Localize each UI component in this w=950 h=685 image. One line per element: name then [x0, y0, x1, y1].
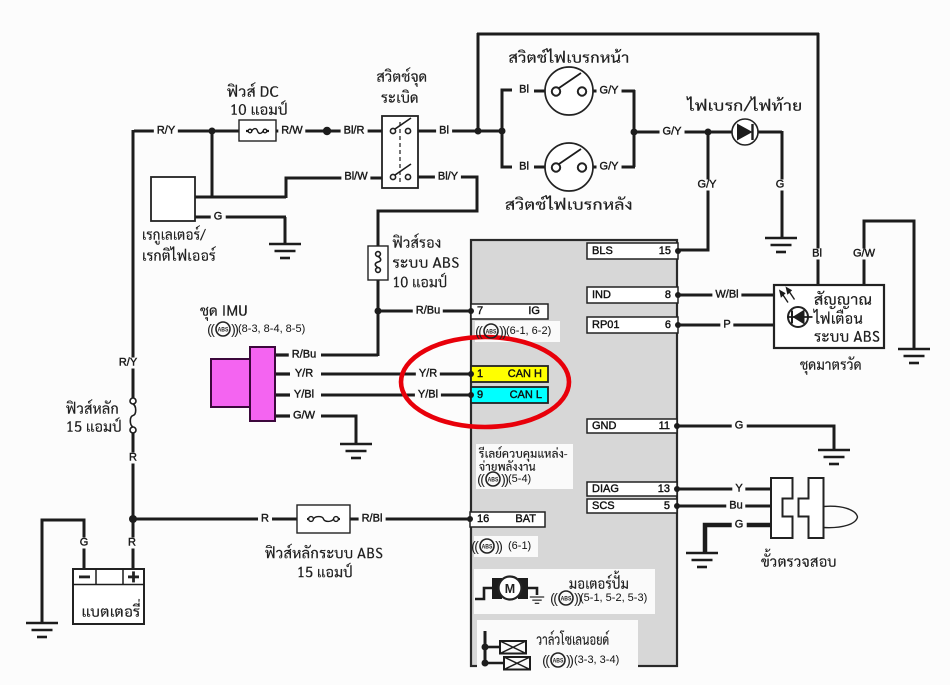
wire G/W from IMU to ground — [321, 416, 356, 444]
wire stub R/Bu from IMU — [275, 353, 290, 356]
pin 13 dot — [674, 486, 680, 492]
wire R/Bu to IG pin 7 — [378, 310, 471, 313]
label sub fuse line2 — [393, 257, 459, 268]
wire regulator ground drop — [284, 217, 287, 244]
label R/Bu pin7 — [413, 306, 443, 317]
label meter unit — [800, 356, 861, 375]
label G lamp ground — [773, 180, 788, 191]
junction BI at frame drop — [475, 128, 482, 135]
wire G from regulator — [195, 216, 286, 219]
ignition switch contact lower — [390, 174, 395, 179]
wire R from battery node to ABS main fuse — [133, 518, 298, 521]
pin label CAN H — [508, 369, 542, 380]
ABS control unit (ECU) panel — [471, 240, 677, 666]
battery box — [73, 569, 144, 624]
label G test — [732, 520, 747, 531]
pin 15 dot — [675, 248, 681, 254]
brake/tail lamp (diode symbol) — [732, 119, 758, 145]
svg-text:ABS: ABS — [561, 595, 572, 602]
pin number 11 — [659, 421, 670, 432]
svg-text:(: ( — [478, 323, 483, 339]
wire R to battery plus — [132, 519, 135, 570]
pin 11 dot — [674, 423, 680, 429]
label Bu SCS — [726, 501, 745, 512]
ABS logo (IMU) — [216, 322, 230, 336]
label power relay line1 — [479, 446, 568, 462]
wire from regulator to BI/W elbow — [195, 196, 286, 199]
ignition switch contact upper — [390, 128, 395, 133]
wire BI to front brake switch — [534, 90, 552, 93]
ground (GND pin 11) — [818, 450, 850, 464]
wire Y from DIAG pin 13 to test connector — [678, 488, 772, 491]
IMU unit connector (small) — [250, 347, 275, 421]
label R battery — [125, 538, 139, 549]
fuse DC 10A element — [246, 130, 250, 132]
label Bl front switch — [516, 85, 532, 96]
ground (test connector G) — [686, 553, 718, 567]
junction R/Bu node — [375, 308, 382, 315]
wire R/Y left vertical — [132, 130, 135, 401]
svg-text:(: ( — [553, 590, 558, 606]
ABS logo (BAT) — [480, 539, 494, 553]
pin 9 CAN L (highlighted) — [471, 387, 548, 403]
label G regulator — [211, 212, 226, 223]
solenoid valve 2 — [504, 657, 530, 670]
ground (brake/tail lamp) — [765, 238, 797, 252]
wire bracket to brake switch BI terminals — [502, 90, 512, 167]
junction solenoid valve 1 — [482, 644, 489, 651]
pin number 7 — [477, 306, 483, 317]
white label patch solenoid valve — [477, 620, 638, 670]
ABS warning light box (meter unit) — [774, 285, 884, 348]
ignition switch dashed link — [399, 122, 401, 182]
wire BI down to meter unit — [817, 33, 820, 287]
label R/Bl — [359, 514, 386, 525]
label G/Y front switch — [597, 86, 622, 97]
label main fuse line1 — [66, 399, 118, 414]
pin number 13 — [658, 484, 670, 495]
svg-text:ABS: ABS — [488, 476, 499, 483]
label rear brake light switch — [505, 195, 631, 210]
svg-text:(: ( — [480, 471, 485, 487]
test connector left shell — [771, 478, 793, 538]
label Y/Bl pin9 — [415, 390, 441, 401]
wire R/W / BI/R from DC fuse to ignition switch — [275, 130, 383, 133]
label solenoid valve — [537, 630, 610, 645]
wire top frame horizontal — [477, 33, 819, 36]
wire G lamp ground drop — [781, 131, 784, 238]
pin 1 CAN H (highlighted) — [471, 366, 548, 382]
svg-text:(: ( — [545, 652, 550, 668]
label ignition switch line2 — [381, 89, 417, 103]
label rectifier line2 — [143, 246, 216, 261]
ABS logo (solenoid) — [551, 653, 565, 667]
wire BI to rear brake switch — [534, 166, 552, 169]
ABS warning LED symbol — [788, 307, 808, 327]
label pump motor — [569, 571, 628, 589]
label ABS main fuse line1 — [265, 544, 382, 559]
label G battery — [77, 538, 92, 549]
red highlight ellipse around CAN H / CAN L — [401, 337, 569, 427]
label P — [720, 320, 733, 331]
wire R/Bu from IMU to sub fuse node — [321, 354, 378, 357]
label regulator line1 — [143, 225, 206, 245]
label 10 amp — [231, 100, 286, 115]
junction G/Y lamp node — [705, 129, 712, 136]
wire W/BI from IND pin 8 to meter — [679, 294, 775, 297]
pin label CAN L — [510, 390, 542, 401]
label Bl rear switch — [516, 162, 532, 173]
main fuse 15A element — [130, 398, 136, 404]
label sub fuse line3 — [394, 273, 446, 288]
ABS main fuse 15A box — [297, 505, 350, 533]
wire to valve 1 — [485, 646, 501, 649]
label G/Y lamp feed — [660, 127, 685, 138]
white label patch pump motor — [474, 569, 655, 614]
label Bl — [436, 126, 452, 137]
ref (6-1) — [508, 541, 531, 552]
wire vertical from top frame to BI node — [477, 33, 480, 131]
ground (regulator) — [269, 244, 301, 258]
pin 7 IG — [471, 304, 548, 319]
wire G/Y to right bracket bottom — [619, 166, 635, 169]
pin 7 dot — [468, 308, 474, 314]
ground (battery) — [26, 623, 58, 637]
wire G/Y down to BLS pin 15 — [679, 132, 708, 250]
label test connector — [761, 549, 835, 568]
pin number 9 — [477, 390, 483, 401]
junction R battery node — [129, 515, 137, 523]
label main fuse line2 — [67, 417, 120, 432]
wire Y/R from IMU to CAN H pin 1 — [321, 373, 471, 376]
pin number 16 — [477, 514, 489, 525]
label ABS main fuse line2 — [298, 563, 351, 578]
pin IND 8 — [587, 287, 678, 303]
junction G/Y right bracket — [631, 129, 638, 136]
label front brake light switch — [509, 48, 628, 63]
label Bl/W — [341, 172, 370, 183]
svg-text:ABS: ABS — [486, 328, 497, 335]
ground (pump motor) — [530, 597, 544, 603]
pin 9 dot — [468, 392, 474, 398]
fuse DC 10A box — [239, 120, 276, 141]
label R/Bu IMU — [289, 350, 319, 361]
wire R below main fuse — [132, 430, 135, 520]
wire right bracket vertical — [633, 90, 636, 167]
label Y DIAG — [732, 484, 745, 495]
wire G/Y from front brake switch — [586, 90, 600, 93]
pin 16 BAT — [470, 512, 545, 527]
svg-text:ABS: ABS — [482, 543, 493, 550]
label fuse DC — [227, 82, 278, 97]
label R/Y vertical — [116, 358, 140, 369]
label G GND — [732, 421, 747, 432]
pin number 1 — [477, 369, 483, 380]
solenoid valve 1 — [500, 641, 526, 654]
pin BLS 15 — [587, 243, 678, 259]
label Y/R pin1 — [416, 369, 440, 380]
wire G test connector to ground — [705, 525, 772, 553]
ref (6-1, 6-2) — [506, 326, 551, 337]
pin number 15 — [659, 246, 671, 257]
wire from R/Y node down to regulator wire — [211, 131, 214, 198]
splice dot R/W — [323, 127, 331, 135]
wire stub G/W from IMU — [275, 414, 290, 417]
junction R/Y node — [209, 128, 216, 135]
wire R/Y from frame to DC fuse — [134, 130, 240, 133]
junction solenoid valve 2 — [482, 660, 489, 667]
white label patch under BAT pin — [474, 536, 538, 557]
label W/Bl — [712, 290, 741, 301]
label Y/Bl IMU — [291, 390, 317, 401]
white label patch under IG pin — [475, 321, 560, 342]
pin 8 dot — [675, 292, 681, 298]
svg-text:): ) — [498, 538, 503, 554]
pin label BLS — [592, 246, 613, 257]
ABS logo (motor) — [559, 591, 573, 605]
label R/Y — [154, 126, 178, 137]
pump motor wires — [475, 588, 493, 599]
svg-text:(: ( — [210, 321, 215, 337]
label ignition switch line1 — [377, 67, 426, 87]
pin number 8 — [665, 290, 671, 301]
pin 1 dot — [468, 371, 474, 377]
sub fuse element — [376, 252, 381, 257]
svg-text:(: ( — [474, 538, 479, 554]
LED arrows — [780, 288, 795, 303]
ABS main fuse element — [307, 518, 311, 520]
pin GND 11 — [587, 419, 677, 433]
ground (meter G/W) — [898, 349, 930, 363]
label power relay line2 — [479, 460, 535, 471]
label warning line1 — [815, 291, 872, 310]
label G/W IMU — [290, 411, 318, 422]
pin DIAG 13 — [587, 482, 677, 496]
wire from lamp to ground drop — [756, 131, 782, 134]
ref (5-4) — [508, 474, 531, 485]
wire to valve 2 — [485, 662, 505, 665]
pin label IG — [528, 306, 540, 317]
wire BI/Y from ignition switch through sub fuse — [378, 177, 477, 356]
wire Bu from SCS pin 5 to test connector — [678, 505, 772, 508]
junction BI bracket — [499, 128, 506, 135]
wire G/W from meter unit to ground — [864, 221, 914, 349]
label warning line2 — [813, 309, 862, 324]
ABS logo (IG) — [484, 324, 498, 338]
label Bl/Y — [435, 172, 461, 183]
pin label GND — [592, 421, 616, 432]
pin label DIAG — [592, 484, 619, 495]
pin label SCS — [592, 501, 615, 512]
wire G battery minus to ground — [42, 520, 84, 623]
white label patch power relay — [476, 444, 573, 489]
label Bl/R — [341, 126, 368, 137]
wire solenoid valve feed — [484, 631, 487, 665]
svg-text:ABS: ABS — [218, 326, 229, 333]
pin label RP01 — [592, 320, 620, 331]
regulator/rectifier box — [151, 177, 195, 221]
label Y/R IMU — [292, 369, 316, 380]
ref (5-1, 5-2, 5-3) — [580, 593, 647, 604]
label Bl meter — [809, 249, 825, 260]
ignition switch box — [382, 116, 418, 188]
ref (3-3, 3-4) — [574, 655, 619, 666]
test connector loop — [824, 506, 858, 527]
wire G/Y from rear brake switch — [586, 166, 600, 169]
ABS logo (relay) — [486, 472, 500, 486]
label G/Y vertical — [695, 180, 720, 191]
label brake/tail lamp — [686, 96, 801, 111]
pin 6 dot — [675, 322, 681, 328]
label G/Y rear switch — [597, 162, 622, 173]
wire R/Bl from ABS main fuse to BAT pin 16 — [349, 518, 471, 521]
pin RP01 6 — [587, 317, 678, 333]
label warning line3 — [814, 331, 879, 342]
wire BI from ignition switch to brake switch node — [417, 130, 503, 133]
IMU unit connector (large) — [211, 359, 251, 407]
test connector right shell — [799, 478, 824, 538]
label R below main fuse — [126, 453, 140, 464]
svg-text:ABS: ABS — [553, 657, 564, 664]
label R/W — [278, 126, 305, 137]
wire stub Y/Bl from IMU — [275, 393, 290, 396]
svg-text:M: M — [505, 582, 515, 596]
pin number 5 — [664, 501, 670, 512]
label sub fuse line1 — [393, 233, 441, 248]
wire Y/Bl from IMU to CAN L pin 9 — [321, 394, 471, 397]
wire P from RP01 pin 6 to meter — [679, 324, 775, 327]
pump motor M — [492, 578, 502, 599]
wire G/Y to right bracket top — [619, 90, 635, 93]
sub fuse ABS 10A box — [368, 246, 388, 280]
label G/W meter — [850, 249, 878, 260]
label battery — [83, 599, 140, 617]
pin label IND — [592, 290, 611, 301]
pin SCS 5 — [587, 499, 677, 513]
pin 16 dot — [467, 516, 473, 522]
wire G/Y to brake/tail lamp — [634, 131, 733, 134]
wire BI/W to ignition switch — [286, 178, 383, 198]
pin label BAT — [515, 514, 536, 525]
ground (IMU G/W) — [340, 444, 372, 458]
front brake light switch — [545, 67, 593, 115]
ref (8-3, 8-4, 8-5) — [238, 324, 305, 335]
wire stub Y/R from IMU — [275, 372, 290, 375]
label IMU unit — [200, 305, 247, 321]
pin number 6 — [665, 320, 671, 331]
rear brake light switch — [545, 143, 593, 191]
wire G from GND pin 11 to ground — [678, 426, 834, 450]
pin 5 dot — [674, 503, 680, 509]
label R to ABS fuse — [258, 514, 272, 525]
